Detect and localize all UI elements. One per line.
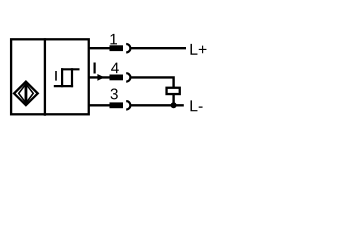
proximity sensor center bar — [25, 83, 27, 103]
pin 1 connector arc — [126, 44, 130, 52]
hysteresis symbol tick — [55, 71, 57, 81]
label 4 — [111, 63, 119, 74]
wire pin 4 — [89, 76, 111, 78]
label 3 — [111, 89, 118, 100]
wire load to L- — [172, 94, 174, 105]
label L+ — [191, 44, 207, 55]
hysteresis symbol bottom line — [54, 85, 73, 87]
pin 3 contact bar — [110, 102, 124, 108]
wire pin 3 — [89, 104, 111, 106]
junction dot — [171, 102, 177, 108]
label 1 — [110, 34, 117, 45]
wire pin 1 — [89, 47, 111, 49]
label I — [94, 63, 96, 74]
hysteresis symbol top line — [61, 68, 80, 70]
proximity sensor left triangle — [19, 85, 26, 103]
sensor body divider — [44, 38, 46, 116]
pin 4 connector arc — [126, 73, 130, 81]
proximity sensor diamond outline — [14, 82, 38, 106]
wire L+ — [130, 47, 186, 49]
load resistor — [167, 88, 180, 94]
label L- — [191, 100, 203, 111]
wire from pin 4 to load — [130, 77, 173, 87]
pin 4 contact bar — [110, 75, 124, 81]
pin 3 connector arc — [126, 101, 130, 109]
hysteresis symbol left vertical — [61, 68, 63, 87]
pin 1 contact bar — [110, 45, 124, 51]
proximity sensor right triangle — [27, 85, 34, 103]
output current arrow — [97, 74, 104, 81]
hysteresis symbol right vertical — [71, 68, 73, 87]
wire L- — [130, 104, 183, 106]
sensor body outline — [11, 39, 89, 114]
